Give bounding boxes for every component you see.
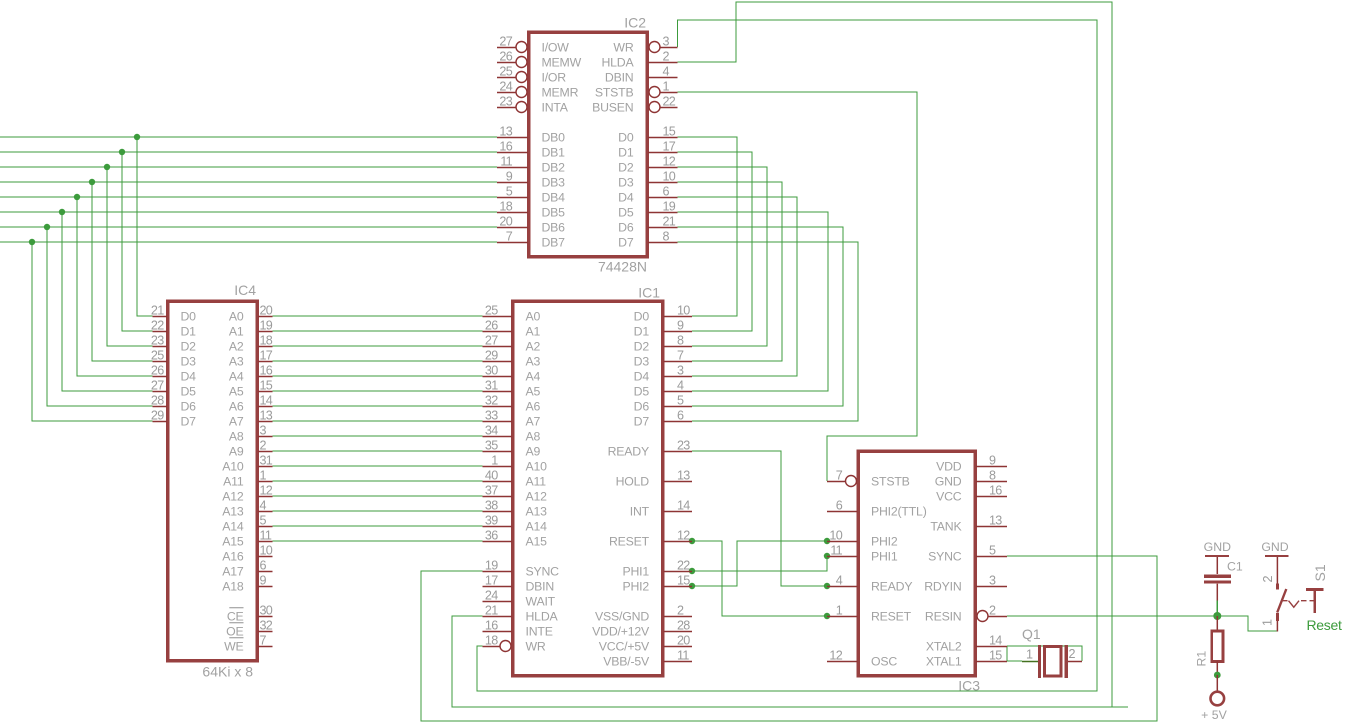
IC1 pin 24 WAIT	[483, 589, 556, 609]
IC2 pin 16 DB1	[497, 140, 565, 160]
svg-text:D3: D3	[618, 175, 634, 189]
wire net A6 (IC4-IC1)	[273, 405, 483, 407]
svg-text:D3: D3	[181, 354, 197, 368]
svg-text:2: 2	[677, 604, 684, 618]
svg-text:23: 23	[151, 334, 164, 348]
svg-text:A1: A1	[229, 324, 244, 338]
IC1 pin 16 INTE	[483, 619, 553, 639]
svg-text:DB6: DB6	[542, 220, 566, 234]
IC4 pin 7 WE	[224, 634, 272, 654]
svg-text:CE: CE	[227, 609, 244, 623]
svg-text:1: 1	[491, 454, 498, 468]
IC2 pin 6 D4	[618, 185, 677, 205]
capacitor C1	[1204, 557, 1243, 601]
svg-text:19: 19	[663, 200, 676, 214]
svg-text:24: 24	[485, 589, 498, 603]
wire net D6 (IC2-IC1)	[678, 227, 844, 406]
svg-text:DB3: DB3	[542, 175, 566, 189]
svg-text:MEMR: MEMR	[542, 85, 579, 99]
svg-text:HLDA: HLDA	[526, 609, 559, 623]
wire net D7 (IC2-IC1)	[678, 242, 859, 421]
svg-text:D7: D7	[181, 414, 197, 428]
svg-text:3: 3	[260, 424, 267, 438]
wire net RESIN (IC3 pin2 - R1/C1/S1)	[1007, 616, 1277, 631]
IC3 pin 13 TANK	[930, 514, 1007, 534]
svg-text:D6: D6	[181, 399, 197, 413]
IC1 pin 5 D6	[634, 394, 692, 414]
svg-text:17: 17	[663, 140, 676, 154]
IC4 pin 14 A6	[229, 394, 273, 414]
svg-text:9: 9	[506, 170, 513, 184]
IC4 pin 9 A18	[222, 574, 272, 594]
svg-text:IC2: IC2	[624, 15, 646, 31]
IC1 pin 6 D7	[634, 409, 692, 429]
svg-text:40: 40	[485, 469, 498, 483]
svg-text:30: 30	[260, 604, 273, 618]
svg-text:D2: D2	[634, 339, 650, 353]
svg-text:5: 5	[260, 514, 267, 528]
svg-text:6: 6	[677, 409, 684, 423]
svg-text:15: 15	[677, 574, 690, 588]
svg-text:A13: A13	[222, 504, 244, 518]
svg-text:VBB/-5V: VBB/-5V	[603, 654, 650, 668]
svg-text:D1: D1	[181, 324, 197, 338]
svg-text:A4: A4	[526, 369, 541, 383]
svg-text:D4: D4	[181, 369, 197, 383]
IC4 pin 29 D7	[151, 409, 196, 429]
svg-text:1: 1	[1261, 619, 1275, 626]
IC2 pin 4 DBIN	[605, 65, 678, 85]
svg-text:DBIN: DBIN	[605, 70, 634, 84]
svg-text:A16: A16	[222, 549, 244, 563]
svg-text:A2: A2	[526, 339, 541, 353]
svg-text:INTE: INTE	[526, 624, 553, 638]
wire net READY (IC1 pin23 - IC3 pin4)	[692, 451, 827, 586]
svg-text:10: 10	[829, 529, 842, 543]
svg-text:D7: D7	[618, 235, 634, 249]
svg-text:DBIN: DBIN	[526, 579, 555, 593]
svg-text:VCC: VCC	[936, 489, 962, 503]
wire net D3 (IC2-IC1)	[678, 182, 783, 361]
svg-text:SYNC: SYNC	[928, 549, 962, 563]
svg-text:A15: A15	[526, 534, 548, 548]
IC3 pin 15 XTAL1	[926, 649, 1007, 669]
svg-text:C1: C1	[1227, 560, 1243, 574]
junction DB7	[29, 239, 35, 245]
svg-text:A10: A10	[222, 459, 244, 473]
svg-text:6: 6	[260, 559, 267, 573]
svg-text:A5: A5	[229, 384, 244, 398]
svg-text:10: 10	[260, 544, 273, 558]
svg-text:VDD/+12V: VDD/+12V	[592, 624, 650, 638]
svg-text:PHI2: PHI2	[622, 579, 649, 593]
svg-text:22: 22	[663, 95, 676, 109]
svg-text:A6: A6	[229, 399, 244, 413]
IC1 pin 32 A6	[483, 394, 541, 414]
IC2 pin 10 D3	[618, 170, 677, 190]
svg-text:I/OR: I/OR	[542, 70, 567, 84]
svg-text:35: 35	[485, 439, 498, 453]
svg-text:9: 9	[989, 454, 996, 468]
svg-text:2: 2	[1069, 647, 1076, 661]
wire net DB4 bus	[0, 197, 497, 376]
resistor R1	[1195, 616, 1224, 675]
IC2 pin 2 HLDA	[601, 50, 677, 70]
IC4 pin 23 D2	[151, 334, 196, 354]
svg-text:39: 39	[485, 514, 498, 528]
svg-text:23: 23	[499, 95, 512, 109]
svg-text:4: 4	[836, 574, 843, 588]
svg-text:2: 2	[260, 439, 267, 453]
svg-text:PHI2: PHI2	[871, 534, 898, 548]
svg-text:A17: A17	[222, 564, 244, 578]
junction IC1 PHI2 pin15	[689, 583, 695, 589]
IC4 pin 5 A14	[222, 514, 272, 534]
IC1 pin 1 A10	[483, 454, 548, 474]
svg-text:READY: READY	[608, 444, 649, 458]
svg-text:29: 29	[485, 349, 498, 363]
IC2 pin 13 DB0	[497, 125, 565, 145]
IC3 pin 16 VCC	[936, 484, 1007, 504]
svg-text:OE: OE	[226, 624, 243, 638]
svg-text:D5: D5	[618, 205, 634, 219]
svg-text:21: 21	[485, 604, 498, 618]
IC1 pin 22 PHI1	[622, 559, 692, 579]
IC3 pin 12 OSC	[827, 649, 897, 669]
svg-text:A12: A12	[526, 489, 548, 503]
wire net A1 (IC4-IC1)	[273, 330, 483, 332]
svg-text:25: 25	[499, 65, 512, 79]
svg-text:RDYIN: RDYIN	[924, 579, 961, 593]
IC1 pin 9 D1	[634, 319, 692, 339]
svg-text:D2: D2	[618, 160, 634, 174]
svg-text:27: 27	[485, 334, 498, 348]
IC1 pin 18 WR	[483, 634, 546, 654]
svg-text:32: 32	[485, 394, 498, 408]
svg-text:PHI1: PHI1	[622, 564, 649, 578]
IC2 pin 17 D1	[618, 140, 677, 160]
svg-text:INT: INT	[630, 504, 650, 518]
svg-text:33: 33	[485, 409, 498, 423]
IC1 pin 17 DBIN	[483, 574, 555, 594]
svg-text:20: 20	[499, 215, 512, 229]
svg-text:11: 11	[500, 155, 512, 169]
IC4 pin 11 A15	[222, 529, 272, 549]
switch S1 actuator	[1282, 564, 1328, 613]
IC2 pin 22 BUSEN	[592, 95, 677, 115]
svg-text:DB5: DB5	[542, 205, 566, 219]
IC1 pin 11 VBB/-5V	[603, 649, 692, 669]
IC1 pin 21 HLDA	[483, 604, 559, 624]
IC1 pin 2 VSS/GND	[595, 604, 692, 624]
svg-text:31: 31	[485, 379, 498, 393]
svg-text:A0: A0	[229, 309, 244, 323]
svg-text:38: 38	[485, 499, 498, 513]
svg-text:26: 26	[485, 319, 498, 333]
svg-text:A3: A3	[526, 354, 541, 368]
svg-text:4: 4	[260, 499, 267, 513]
svg-text:15: 15	[260, 379, 273, 393]
svg-text:PHI2(TTL): PHI2(TTL)	[871, 504, 927, 518]
wire net A3 (IC4-IC1)	[273, 360, 483, 362]
IC1 pin 38 A13	[483, 499, 548, 519]
svg-text:27: 27	[499, 35, 512, 49]
svg-text:IC3: IC3	[958, 678, 980, 694]
svg-text:GND: GND	[935, 474, 962, 488]
wire net PHI1 (IC1 pin22 - IC3 pin11)	[692, 556, 827, 571]
svg-text:A1: A1	[526, 324, 541, 338]
wire net A0 (IC4-IC1)	[273, 315, 483, 317]
svg-text:D6: D6	[618, 220, 634, 234]
IC1 pin 4 D5	[634, 379, 692, 399]
IC1 pin 39 A14	[483, 514, 548, 534]
svg-text:A14: A14	[526, 519, 548, 533]
svg-text:D4: D4	[634, 369, 650, 383]
svg-text:HOLD: HOLD	[616, 474, 650, 488]
IC4 pin 4 A13	[222, 499, 272, 519]
svg-text:DB0: DB0	[542, 130, 566, 144]
junction DB0	[134, 134, 140, 140]
svg-text:A11: A11	[526, 474, 547, 488]
svg-text:6: 6	[836, 499, 843, 513]
IC1 pin 35 A9	[483, 439, 541, 459]
IC4 pin 32 OE	[226, 619, 273, 639]
svg-text:29: 29	[151, 409, 164, 423]
wire net D1 (IC2-IC1)	[678, 152, 753, 331]
svg-text:MEMW: MEMW	[542, 55, 582, 69]
IC4 pin 19 A1	[229, 319, 273, 339]
svg-text:A10: A10	[526, 459, 548, 473]
wire net DB3 bus	[0, 182, 497, 361]
IC1 pin 37 A12	[483, 484, 548, 504]
svg-text:9: 9	[677, 319, 684, 333]
IC4 pin 30 CE	[227, 604, 273, 624]
svg-text:XTAL2: XTAL2	[926, 639, 962, 653]
svg-text:24: 24	[499, 80, 512, 94]
svg-text:WR: WR	[526, 639, 546, 653]
crystal Q1	[1022, 626, 1082, 678]
svg-text:DB4: DB4	[542, 190, 566, 204]
IC2 pin 23 INTA	[497, 95, 569, 115]
svg-text:19: 19	[485, 559, 498, 573]
svg-text:A4: A4	[229, 369, 244, 383]
IC4 pin 17 A3	[229, 349, 273, 369]
IC2 pin 21 D6	[618, 215, 677, 235]
junction DB4	[74, 194, 80, 200]
IC IC2 box	[529, 32, 648, 257]
svg-text:4: 4	[677, 379, 684, 393]
IC IC1 box	[513, 301, 663, 676]
IC1 pin 12 RESET	[609, 529, 692, 549]
wire net HLDA (IC2 pin2 - IC1 pin21)	[452, 2, 1128, 707]
junction IC3 READY pin4	[824, 583, 830, 589]
svg-text:28: 28	[677, 619, 690, 633]
IC2 pin 3 WR	[613, 35, 677, 55]
wire net XTAL1 (IC3 pin15 - Q1 pin1)	[1007, 660, 1022, 662]
wire net A15 (IC4-IC1)	[273, 540, 483, 542]
svg-text:12: 12	[677, 529, 690, 543]
svg-text:22: 22	[151, 319, 164, 333]
svg-text:STSTB: STSTB	[595, 85, 634, 99]
svg-text:2: 2	[663, 50, 670, 64]
svg-text:D1: D1	[618, 145, 634, 159]
svg-text:RESET: RESET	[609, 534, 650, 548]
svg-text:10: 10	[663, 170, 676, 184]
svg-text:WR: WR	[613, 40, 633, 54]
IC4 pin 20 A0	[229, 304, 273, 324]
IC4 pin 6 A17	[222, 559, 272, 579]
IC4 pin 26 D4	[151, 364, 196, 384]
junction DB1	[119, 149, 125, 155]
svg-text:D0: D0	[618, 130, 634, 144]
wire net XTAL2 (IC3 pin14 - Q1 pin2)	[1007, 646, 1082, 661]
svg-text:A3: A3	[229, 354, 244, 368]
IC1 pin 26 A1	[483, 319, 541, 339]
svg-text:TANK: TANK	[930, 519, 962, 533]
IC1 pin 10 D0	[634, 304, 692, 324]
svg-text:34: 34	[485, 424, 498, 438]
wire net A13 (IC4-IC1)	[273, 510, 483, 512]
svg-text:10: 10	[677, 304, 690, 318]
IC3 pin 14 XTAL2	[926, 634, 1007, 654]
svg-text:VDD: VDD	[936, 459, 962, 473]
IC2 pin 20 DB6	[497, 215, 565, 235]
IC4 pin 3 A8	[229, 424, 273, 444]
IC1 pin 33 A7	[483, 409, 541, 429]
svg-text:1: 1	[836, 604, 843, 618]
IC3 pin 4 READY	[827, 574, 912, 594]
junction DB3	[89, 179, 95, 185]
IC4 pin 1 A11	[223, 469, 272, 489]
IC4 pin 27 D5	[151, 379, 196, 399]
IC4 pin 16 A4	[229, 364, 273, 384]
svg-text:IC4: IC4	[234, 282, 256, 298]
wire net D5 (IC2-IC1)	[678, 212, 829, 391]
wire net DB7 bus	[0, 242, 497, 421]
svg-text:RESET: RESET	[871, 609, 912, 623]
svg-text:A0: A0	[526, 309, 541, 323]
svg-text:VCC/+5V: VCC/+5V	[599, 639, 650, 653]
svg-text:SYNC: SYNC	[526, 564, 560, 578]
svg-text:D6: D6	[634, 399, 650, 413]
svg-text:Reset: Reset	[1307, 617, 1342, 633]
svg-text:28: 28	[151, 394, 164, 408]
IC4 pin 28 D6	[151, 394, 196, 414]
wire net A4 (IC4-IC1)	[273, 375, 483, 377]
wire net A8 (IC4-IC1)	[273, 435, 483, 437]
wire net DB0 bus	[0, 137, 497, 316]
svg-text:16: 16	[499, 140, 512, 154]
svg-text:30: 30	[485, 364, 498, 378]
IC2 pin 27 I/OW	[497, 35, 569, 55]
IC4 pin 10 A16	[222, 544, 273, 564]
IC1 pin 19 SYNC	[483, 559, 560, 579]
svg-text:D7: D7	[634, 414, 650, 428]
svg-text:A14: A14	[222, 519, 244, 533]
svg-text:17: 17	[260, 349, 273, 363]
switch S1 pin 2	[1261, 557, 1278, 589]
wire net STSTB (IC2 pin1 - IC3 pin7)	[678, 92, 918, 481]
IC2 pin 1 STSTB	[595, 80, 678, 100]
wire net RESET (IC1 pin12 - IC3 pin1)	[692, 541, 827, 616]
svg-text:A6: A6	[526, 399, 541, 413]
svg-text:37: 37	[485, 484, 498, 498]
svg-text:IC1: IC1	[638, 285, 660, 301]
svg-text:READY: READY	[871, 579, 912, 593]
svg-text:16: 16	[989, 484, 1002, 498]
svg-text:22: 22	[677, 559, 690, 573]
wire net DB6 bus	[0, 227, 497, 406]
svg-text:BUSEN: BUSEN	[592, 100, 633, 114]
svg-text:D0: D0	[181, 309, 197, 323]
svg-text:1: 1	[663, 80, 670, 94]
IC3 pin 7 STSTB	[827, 469, 910, 489]
svg-text:7: 7	[836, 469, 843, 483]
IC4 pin 15 A5	[229, 379, 273, 399]
IC1 pin 8 D2	[634, 334, 692, 354]
svg-text:16: 16	[485, 619, 498, 633]
svg-text:21: 21	[151, 304, 164, 318]
wire net A14 (IC4-IC1)	[273, 525, 483, 527]
svg-text:7: 7	[506, 230, 513, 244]
wire net /WR (IC2 pin3 - IC1 pin18)	[477, 20, 1097, 691]
wire net PHI2 (IC1 pin15 - IC3 pin10)	[692, 541, 827, 586]
svg-text:XTAL1: XTAL1	[926, 654, 962, 668]
IC1 pin 20 VCC/+5V	[599, 634, 692, 654]
svg-text:GND: GND	[1261, 540, 1288, 554]
junction IC3 RESET pin1	[824, 613, 830, 619]
svg-text:S1: S1	[1312, 564, 1328, 581]
wire C1 to junction	[1216, 601, 1218, 617]
+5V supply pin	[1201, 675, 1227, 722]
svg-text:11: 11	[830, 544, 842, 558]
IC1 pin 29 A3	[483, 349, 541, 369]
svg-text:D4: D4	[618, 190, 634, 204]
svg-text:19: 19	[260, 319, 273, 333]
svg-text:14: 14	[677, 499, 690, 513]
svg-text:8: 8	[989, 469, 996, 483]
svg-text:31: 31	[260, 454, 273, 468]
svg-text:A7: A7	[229, 414, 244, 428]
svg-text:3: 3	[663, 35, 670, 49]
svg-text:HLDA: HLDA	[601, 55, 634, 69]
IC1 pin 31 A5	[483, 379, 541, 399]
IC4 pin 31 A10	[222, 454, 273, 474]
IC2 pin 25 I/OR	[497, 65, 566, 85]
IC4 pin 12 A12	[222, 484, 273, 504]
switch S1 blade and pin 1	[1261, 589, 1287, 632]
svg-text:1: 1	[260, 469, 267, 483]
svg-text:5: 5	[506, 185, 513, 199]
IC1 pin 3 D4	[634, 364, 692, 384]
wire net A12 (IC4-IC1)	[273, 495, 483, 497]
IC2 pin 12 D2	[618, 155, 677, 175]
svg-text:14: 14	[260, 394, 273, 408]
svg-text:11: 11	[260, 529, 272, 543]
IC1 pin 34 A8	[483, 424, 541, 444]
svg-text:20: 20	[677, 634, 690, 648]
svg-text:A7: A7	[526, 414, 541, 428]
wire net D0 (IC2-IC1)	[678, 137, 738, 316]
junction DB2	[104, 164, 110, 170]
svg-text:2: 2	[1261, 575, 1275, 582]
svg-text:A18: A18	[222, 579, 244, 593]
svg-text:18: 18	[485, 634, 498, 648]
svg-text:23: 23	[677, 439, 690, 453]
wire net A2 (IC4-IC1)	[273, 345, 483, 347]
IC3 pin 9 VDD	[936, 454, 1007, 474]
svg-text:26: 26	[151, 364, 164, 378]
